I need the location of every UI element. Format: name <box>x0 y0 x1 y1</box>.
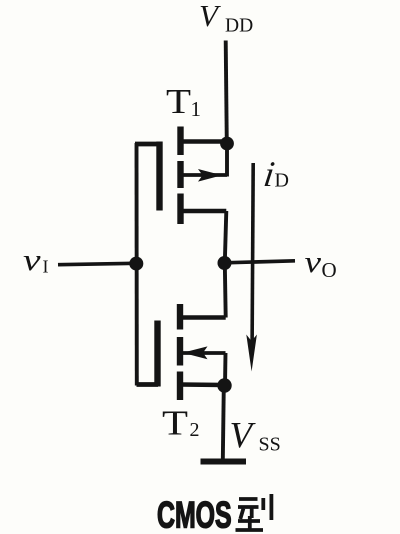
wire v_O output <box>225 261 296 263</box>
wire body to source T2 <box>223 353 227 386</box>
svg-text:DD: DD <box>225 16 253 37</box>
svg-text:O: O <box>322 258 337 282</box>
transistor T2 body line with arrow <box>183 346 226 359</box>
wire T1 source down to output <box>225 211 227 263</box>
label V_SS <box>230 416 281 457</box>
transistor T2 drain line <box>180 315 226 320</box>
svg-text:T: T <box>166 82 191 121</box>
svg-text:CMOS: CMOS <box>157 493 232 534</box>
svg-text:D: D <box>275 170 289 192</box>
transistor T1 source line <box>180 209 226 214</box>
node input junction <box>129 257 143 271</box>
wire gate connector T2 <box>137 382 159 387</box>
wire body to source T1 <box>225 144 229 177</box>
transistor T1 body line with arrow <box>183 169 227 182</box>
wire VSS vertical <box>223 386 224 462</box>
transistor T2 channel segment top <box>177 304 183 330</box>
label i_D <box>261 154 289 194</box>
label T1 <box>166 82 201 121</box>
transistor T2 gate bar <box>154 321 160 387</box>
svg-text:SS: SS <box>259 434 281 456</box>
transistor T1 channel segment middle <box>177 161 183 188</box>
transistor T2 source line <box>180 382 224 387</box>
svg-text:2: 2 <box>190 419 200 441</box>
node drain T1 (junction dot) <box>220 137 234 151</box>
transistor T1 channel segment top <box>177 127 183 156</box>
transistor T1 gate bar <box>156 142 162 211</box>
wire VDD vertical <box>226 41 227 145</box>
svg-text:I: I <box>43 257 49 277</box>
label v_I <box>23 242 49 277</box>
svg-text:1: 1 <box>191 97 202 121</box>
wire i_D current line with arrow <box>246 163 257 372</box>
node source T2 (junction dot) <box>217 378 231 392</box>
wire gate bus vertical <box>135 143 139 386</box>
svg-text:v: v <box>305 244 322 279</box>
node output junction <box>218 256 232 270</box>
transistor T2 channel segment bottom <box>177 372 183 401</box>
label v_O <box>305 244 337 282</box>
svg-text:v: v <box>23 242 41 277</box>
ground symbol <box>201 459 247 465</box>
caption CJK character 型 <box>236 494 272 530</box>
transistor T2 channel segment middle <box>177 337 183 366</box>
wire output up to T2 drain <box>223 263 228 318</box>
svg-text:V: V <box>230 416 257 457</box>
transistor T1 channel segment bottom <box>177 194 183 225</box>
label V_DD <box>199 0 253 37</box>
wire gate connector T1 <box>135 142 160 147</box>
svg-text:V: V <box>199 0 221 33</box>
label T2 <box>162 404 200 443</box>
transistor T1 drain line <box>180 139 227 144</box>
svg-text:T: T <box>162 404 188 443</box>
wire v_I input <box>58 263 136 264</box>
